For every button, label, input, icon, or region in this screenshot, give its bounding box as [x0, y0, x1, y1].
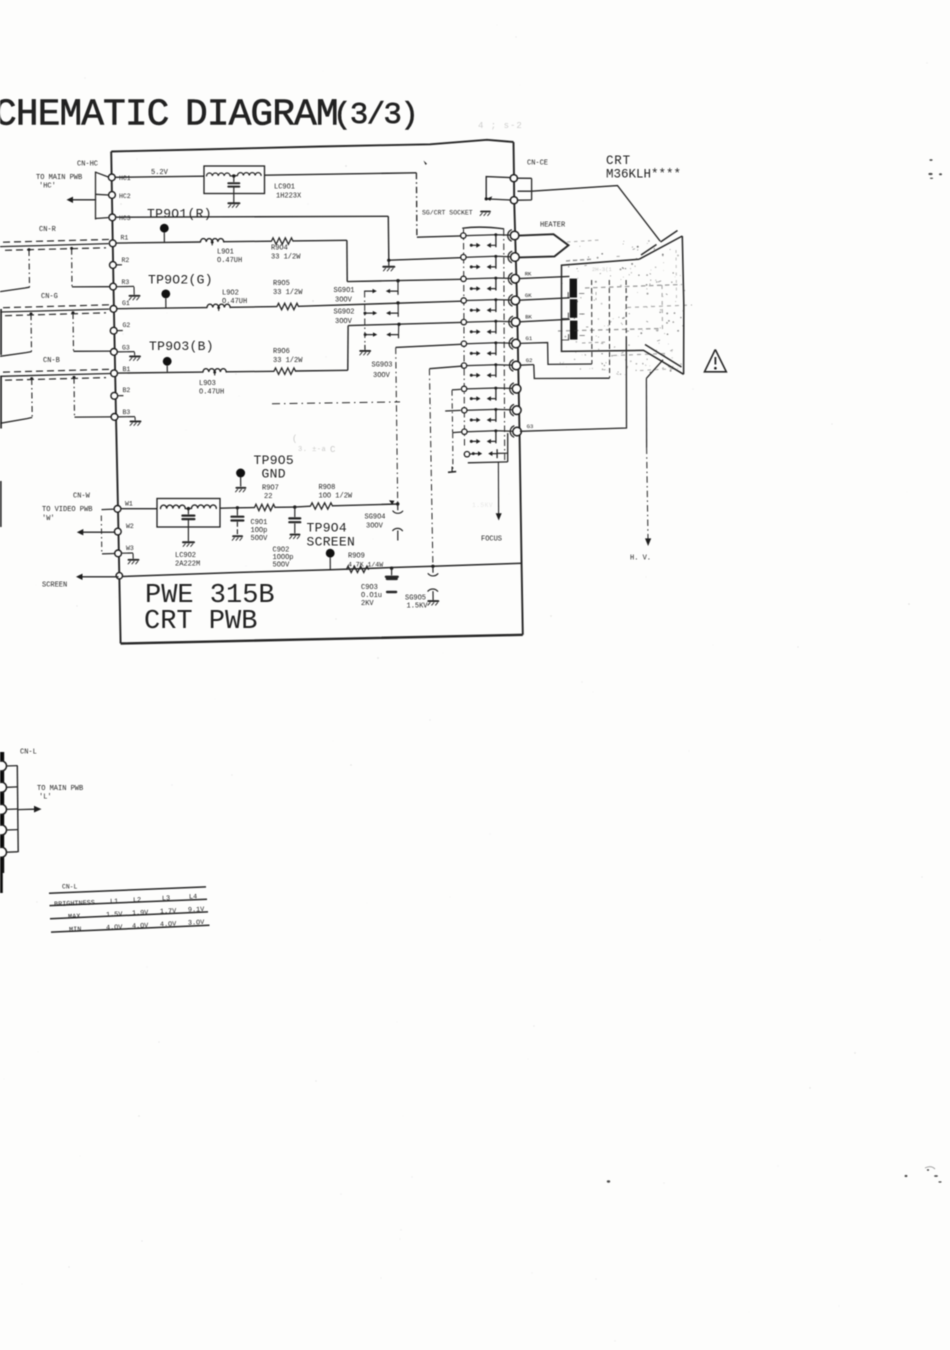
- wire drop row10 to tee: [452, 433, 454, 471]
- junction shield R a: [28, 248, 31, 251]
- wire HC1 to LC901: [115, 176, 204, 177]
- text TO MAIN PWB L: [37, 785, 83, 802]
- svg-text:TP9O2(G): TP9O2(G): [148, 273, 213, 288]
- filter LC902 box: [157, 499, 220, 528]
- black page-edge bar: [0, 481, 4, 893]
- junction LC901 center: [232, 174, 235, 177]
- svg-text:MAX: MAX: [68, 913, 81, 921]
- svg-text:C: C: [330, 445, 336, 455]
- title text SCHEMATIC DIAGRAM(3/3): [0, 94, 417, 137]
- svg-text:5OOV: 5OOV: [251, 535, 269, 543]
- wire B1 channel: [118, 372, 203, 373]
- svg-text:3OOV: 3OOV: [335, 297, 353, 305]
- wire R905 to socket: [299, 301, 461, 306]
- capacitor C901: [231, 508, 243, 540]
- resistor R909: [347, 566, 369, 572]
- svg-text:TP9O3(B): TP9O3(B): [149, 339, 214, 354]
- svg-text:SG9O3: SG9O3: [372, 362, 393, 370]
- arrow CN-L to main: [18, 806, 42, 813]
- pin R1: [109, 235, 128, 247]
- connector CN-B label: [43, 357, 60, 365]
- capacitor in LC902: [182, 509, 194, 519]
- pin B3: [111, 409, 130, 420]
- ground SG rail: [360, 345, 370, 355]
- connector CN-R label: [39, 226, 57, 234]
- svg-text:1.5V: 1.5V: [106, 911, 124, 920]
- junction HC3 return: [387, 259, 390, 262]
- label H.V: [630, 555, 651, 563]
- wire BK row to socket: [348, 322, 461, 325]
- wire shield R offpage: [0, 287, 30, 291]
- cathode K G: [562, 299, 584, 318]
- svg-text:BK: BK: [525, 314, 532, 321]
- capacitor in LC901: [228, 177, 239, 187]
- junction CN-CE: [485, 196, 493, 200]
- connector CN-L bracket: [16, 766, 19, 853]
- svg-text:3OOV: 3OOV: [366, 523, 384, 531]
- connector CN-L label: [20, 749, 37, 757]
- socket left dash rail: [464, 229, 465, 447]
- svg-text:R3: R3: [122, 279, 130, 286]
- svg-text:BRIGHTNESS: BRIGHTNESS: [54, 899, 95, 909]
- socket pin row 6: [461, 335, 533, 356]
- inductor L902: [207, 304, 230, 307]
- wire RK row to socket: [347, 279, 461, 281]
- grid G3 dashed: [625, 280, 627, 336]
- wire G2row corner: [429, 366, 462, 369]
- junction L901 tap: [211, 241, 214, 246]
- svg-text:O.47UH: O.47UH: [217, 257, 242, 265]
- board label divider / screen rail: [119, 563, 522, 576]
- label 5.2V: [151, 169, 169, 177]
- cable shield CN-B dashed: [3, 369, 111, 380]
- label SG905: [405, 595, 428, 611]
- spark gap SG905: [428, 567, 438, 606]
- svg-text:LC9O2: LC9O2: [175, 552, 196, 560]
- faint label focus kv: [472, 502, 493, 509]
- label C903: [361, 584, 382, 608]
- svg-text:1.5KV: 1.5KV: [407, 603, 429, 611]
- svg-text:L4: L4: [189, 893, 197, 901]
- spark gap SG904: [393, 504, 403, 540]
- connector CN-HC bracket: [96, 172, 109, 220]
- ground LC902: [183, 520, 194, 546]
- svg-text:3OOV: 3OOV: [335, 318, 353, 326]
- capacitor C902: [289, 507, 300, 538]
- junction LC902 center: [187, 507, 190, 510]
- svg-text:R9O9: R9O9: [348, 553, 365, 561]
- wire G2 route: [520, 365, 610, 379]
- arrow W2 to video: [77, 529, 115, 535]
- label L901: [217, 249, 242, 266]
- svg-text:H. V.: H. V.: [630, 555, 651, 563]
- junction C901: [236, 506, 239, 509]
- svg-text:5.2V: 5.2V: [151, 169, 169, 177]
- svg-text:W1: W1: [125, 501, 133, 508]
- wire LC902 to C901: [220, 507, 237, 509]
- svg-text:HC2: HC2: [119, 193, 131, 200]
- wire shield G offpage: [0, 352, 32, 357]
- inductor LC901 coils: [207, 173, 262, 176]
- label FOCUS: [481, 536, 502, 544]
- wire R907 to C902: [275, 506, 295, 508]
- cathode K R: [562, 279, 584, 298]
- svg-text:R1: R1: [121, 235, 129, 242]
- arrow to main PWB HC: [67, 197, 96, 203]
- svg-text:'L': 'L': [39, 794, 52, 802]
- svg-text:G3: G3: [122, 345, 130, 352]
- test point TP904 dot: [326, 549, 335, 570]
- svg-text:3OOV: 3OOV: [373, 372, 391, 380]
- junction RK row: [396, 279, 399, 282]
- table lines: [49, 887, 210, 932]
- junction BK row: [397, 323, 400, 326]
- test point TP905 dot: [236, 469, 246, 492]
- inductor L903: [203, 369, 226, 372]
- pin G3: [111, 345, 130, 356]
- svg-text:TO VIDEO PWB: TO VIDEO PWB: [42, 506, 92, 514]
- wire R step down: [346, 240, 348, 281]
- label L903: [199, 380, 224, 397]
- resistor R904: [272, 238, 294, 244]
- filter LC901 box: [204, 166, 265, 194]
- CRT neck box: [562, 259, 645, 351]
- svg-text:GND: GND: [262, 467, 286, 482]
- svg-text:'W': 'W': [42, 515, 55, 523]
- ground LC901: [228, 188, 239, 208]
- wire shield B offpage: [0, 417, 32, 423]
- wire G1 route: [520, 343, 592, 365]
- label R907: [262, 485, 279, 502]
- stub socket row8: [452, 388, 461, 391]
- svg-text:4.7K 1/4W: 4.7K 1/4W: [348, 562, 383, 569]
- pin R3: [110, 279, 130, 290]
- wire heater drop to socket row1: [416, 173, 461, 237]
- label R905: [273, 280, 303, 297]
- svg-text:B3: B3: [123, 409, 131, 416]
- wire shield G drop a: [30, 314, 33, 351]
- test point TP901: [147, 207, 212, 243]
- wire B step up: [347, 326, 349, 371]
- svg-text:C9O3: C9O3: [361, 584, 378, 592]
- svg-text:2KV: 2KV: [361, 600, 374, 608]
- wire G2row dash drop: [429, 369, 433, 566]
- wire G1row dash drop: [396, 348, 398, 504]
- wire CN-CE to CRT leader: [514, 178, 660, 241]
- socket pin row 2: [461, 251, 520, 269]
- connector CN-CE label: [527, 160, 548, 168]
- stub W1: [102, 508, 115, 511]
- svg-text:R2: R2: [122, 257, 130, 264]
- svg-text:2H-3(1: 2H-3(1: [592, 266, 613, 273]
- spark gap focus: [472, 449, 497, 458]
- pin R2: [110, 257, 130, 268]
- faint neck marks: [568, 257, 613, 273]
- svg-text:33 1/2W: 33 1/2W: [273, 357, 303, 365]
- anode coating: [646, 360, 663, 379]
- svg-text:1.5KV: 1.5KV: [472, 502, 493, 509]
- label C901: [251, 519, 269, 543]
- wire shield B drop b: [73, 378, 76, 417]
- svg-text:O.47UH: O.47UH: [199, 389, 224, 397]
- pin W3: [115, 545, 134, 557]
- svg-text:1.7V: 1.7V: [160, 908, 178, 917]
- junction shield B b: [73, 376, 76, 379]
- svg-text:CN-G: CN-G: [41, 293, 58, 301]
- wire shield G drop b: [72, 313, 75, 351]
- svg-text:CN-CE: CN-CE: [527, 160, 548, 168]
- connector CN-G label: [41, 293, 58, 301]
- label SG903: [372, 362, 393, 381]
- grid G2 dashed: [608, 280, 610, 378]
- tee mark: [448, 467, 456, 473]
- capacitor C903: [386, 568, 398, 592]
- junction SG905: [431, 565, 434, 568]
- wire shield B drop a: [31, 379, 34, 417]
- svg-text:FOCUS: FOCUS: [481, 536, 502, 544]
- svg-text:TP9O1(R): TP9O1(R): [147, 207, 212, 222]
- svg-text:CN-L: CN-L: [62, 884, 78, 891]
- svg-text:SG9O5: SG9O5: [405, 595, 426, 603]
- wire R904 to step: [293, 239, 347, 242]
- svg-text:HC3: HC3: [119, 215, 131, 222]
- svg-text:TO MAIN PWB: TO MAIN PWB: [36, 174, 82, 182]
- svg-text:L9O1: L9O1: [217, 249, 234, 257]
- connector CN-L pins: [0, 761, 18, 857]
- tick mark near socket: [424, 161, 428, 165]
- svg-text:O.O1u: O.O1u: [361, 592, 382, 600]
- cathode K B: [562, 321, 584, 340]
- wire SG rail dash: [364, 292, 366, 345]
- svg-text:1H223X: 1H223X: [276, 193, 302, 201]
- wire HV lead: [645, 378, 651, 546]
- label SCREEN left: [42, 582, 67, 590]
- stub G3 ground: [118, 352, 140, 361]
- svg-text:W2: W2: [126, 523, 134, 530]
- label R908: [319, 484, 353, 501]
- svg-text:3.OV: 3.OV: [188, 919, 206, 928]
- junction shield B a: [30, 377, 33, 380]
- svg-text:'HC': 'HC': [39, 183, 56, 191]
- grid G1 dashed: [591, 280, 593, 364]
- heater lug: [519, 234, 569, 257]
- table row min: [69, 919, 206, 934]
- text TO MAIN PWB HC: [36, 174, 82, 191]
- stub B3 ground: [118, 417, 140, 426]
- table row header: [54, 893, 197, 909]
- pin B1: [111, 366, 131, 377]
- svg-text:CN-HC: CN-HC: [77, 161, 98, 169]
- svg-text:R9O8: R9O8: [319, 484, 336, 492]
- spark gap SG903: [364, 325, 399, 339]
- pin CN-CE 2: [510, 197, 517, 204]
- svg-text:M36KLH****: M36KLH****: [606, 168, 681, 182]
- wire L902 to R905: [230, 306, 277, 309]
- faint pencil scribble mid: [292, 434, 336, 455]
- socket pin row 1: [461, 230, 519, 248]
- wire CN-G core: [0, 309, 109, 312]
- svg-text:R9O7: R9O7: [262, 485, 279, 493]
- label LC902: [175, 552, 200, 569]
- warning triangle: [705, 350, 727, 372]
- wire G1 channel: [117, 308, 207, 309]
- pin G1: [110, 300, 130, 312]
- CRT funnel speckle texture: [558, 240, 692, 375]
- svg-text:2A222M: 2A222M: [175, 561, 200, 569]
- cable dash CN-W: [100, 516, 103, 554]
- svg-text:GK: GK: [525, 292, 532, 299]
- pin HC3: [109, 214, 131, 222]
- socket pin row 8: [461, 383, 520, 401]
- svg-text:SG/CRT SOCKET: SG/CRT SOCKET: [422, 210, 473, 217]
- svg-text:C9O1: C9O1: [251, 519, 268, 527]
- stub W3 ground: [122, 553, 139, 564]
- svg-text:(: (: [292, 434, 297, 444]
- svg-text:DIAGRAM: DIAGRAM: [185, 94, 338, 137]
- svg-text:L2: L2: [133, 897, 141, 905]
- cable shield CN-R dashed: [3, 239, 110, 250]
- svg-text:O.47UH: O.47UH: [222, 298, 247, 306]
- junction L903 tap: [213, 371, 216, 376]
- svg-text:MIN: MIN: [69, 926, 82, 934]
- faint pencil mark top: [478, 121, 523, 131]
- junction GK row: [396, 301, 399, 304]
- junction shield R b: [70, 247, 73, 250]
- table row max: [68, 906, 206, 921]
- pin screen out: [116, 573, 122, 579]
- svg-text:SG9O4: SG9O4: [365, 514, 386, 522]
- connector CN-HC label: [77, 161, 98, 169]
- svg-text:4.OV: 4.OV: [106, 924, 124, 933]
- resistor R906: [274, 368, 296, 374]
- svg-text:B1: B1: [123, 366, 131, 373]
- socket pin row 9: [462, 405, 522, 423]
- junction C903: [390, 567, 393, 570]
- wire CN-R core: [0, 244, 109, 247]
- label L902: [222, 290, 247, 307]
- pin G2: [110, 322, 130, 334]
- CRT PWB board outline: [111, 140, 523, 644]
- socket focus pin: [464, 452, 473, 457]
- cable shield CN-G dashed: [3, 305, 110, 316]
- svg-text:1.9V: 1.9V: [132, 909, 150, 918]
- left edge wire marks: [0, 309, 2, 429]
- svg-text:(3/3): (3/3): [333, 98, 417, 133]
- pin CN-CE 1: [510, 175, 517, 182]
- wire W1 to LC902: [121, 508, 157, 510]
- svg-text:1OOp: 1OOp: [251, 527, 268, 535]
- svg-text:G2: G2: [123, 322, 131, 329]
- wire LC901 to socket corner: [265, 173, 417, 175]
- svg-text:G1: G1: [526, 335, 533, 342]
- spark gap SG901: [365, 281, 398, 295]
- svg-text:CRT: CRT: [606, 154, 631, 168]
- spark gap SG902: [364, 303, 399, 317]
- svg-text:B2: B2: [123, 387, 131, 394]
- svg-text:G3: G3: [527, 423, 534, 430]
- svg-text:SG9O1: SG9O1: [334, 287, 355, 295]
- wire shield drop row8-10: [451, 390, 454, 432]
- junction shield G b: [72, 311, 75, 314]
- pin W2: [114, 523, 134, 535]
- label HEATER: [540, 222, 566, 230]
- socket pin row 10: [462, 423, 534, 444]
- text CRT PWB: [144, 607, 257, 637]
- label R909: [348, 553, 383, 569]
- pin W1: [114, 501, 133, 513]
- connector CN-W label: [73, 493, 91, 501]
- svg-text:CN-L: CN-L: [20, 749, 37, 757]
- wire shield R drop b: [71, 249, 73, 287]
- svg-text:HC1: HC1: [119, 175, 131, 182]
- svg-text:LC9O1: LC9O1: [274, 184, 295, 192]
- wire HC3 to socket row2: [116, 216, 461, 260]
- svg-text:CRT PWB: CRT PWB: [144, 607, 257, 637]
- CRT funnel flare top: [639, 231, 682, 260]
- svg-text:RK: RK: [525, 270, 532, 277]
- svg-text:L3: L3: [162, 895, 170, 903]
- svg-text:33 1/2W: 33 1/2W: [271, 254, 301, 262]
- wire shield B to B3: [75, 416, 113, 418]
- svg-text:R9O5: R9O5: [273, 280, 290, 288]
- wire G1row corner: [396, 344, 461, 347]
- socket pin row 5: [461, 314, 532, 335]
- svg-text:L1: L1: [110, 898, 118, 906]
- CRT funnel flare bottom: [644, 345, 684, 375]
- wire shield G to G3: [74, 350, 111, 352]
- wire C901 to R907: [237, 507, 254, 509]
- wire shield R to R3: [72, 286, 109, 288]
- label SG901: [334, 287, 355, 305]
- label CRT type: [606, 154, 681, 182]
- inductor L901: [201, 239, 224, 242]
- svg-text:CHEMATIC: CHEMATIC: [0, 94, 169, 137]
- socket pin row 3: [461, 270, 532, 291]
- dash-dot leader mid: [272, 402, 400, 404]
- svg-text:SCREEN: SCREEN: [42, 582, 67, 590]
- resistor R905: [277, 303, 299, 309]
- svg-text:33 1/2W: 33 1/2W: [273, 289, 303, 297]
- wire BK to cathode: [519, 319, 570, 322]
- wire L901 to R904: [224, 240, 272, 243]
- test point TP903: [149, 339, 214, 372]
- svg-text:CN-W: CN-W: [73, 493, 91, 501]
- svg-text:5OOV: 5OOV: [273, 562, 291, 570]
- stub W3: [102, 553, 115, 555]
- label SG904: [365, 514, 386, 531]
- svg-text:9.1V: 9.1V: [188, 906, 206, 915]
- focus lead arrow: [496, 462, 502, 521]
- pin HC2: [109, 192, 131, 200]
- wire focus loop: [468, 433, 508, 463]
- table CN-L title: [62, 884, 78, 891]
- wire L903 to R906: [226, 370, 274, 373]
- wire G3 route: [520, 336, 627, 431]
- inductor LC902 coils: [161, 505, 217, 509]
- resistor R907: [255, 504, 275, 510]
- junction C902: [293, 505, 296, 508]
- svg-text:··· ··: ··· ··: [568, 257, 590, 264]
- label R904: [271, 245, 301, 262]
- label SG/CRT SOCKET: [422, 210, 490, 217]
- wire R1 channel: [116, 242, 200, 243]
- wire RK to cathode: [519, 276, 570, 278]
- test point TP902: [148, 273, 213, 309]
- svg-text:22: 22: [264, 493, 272, 501]
- svg-text:R9O4: R9O4: [271, 245, 288, 253]
- svg-text:R9O6: R9O6: [273, 348, 290, 356]
- arrow screen out: [76, 574, 118, 580]
